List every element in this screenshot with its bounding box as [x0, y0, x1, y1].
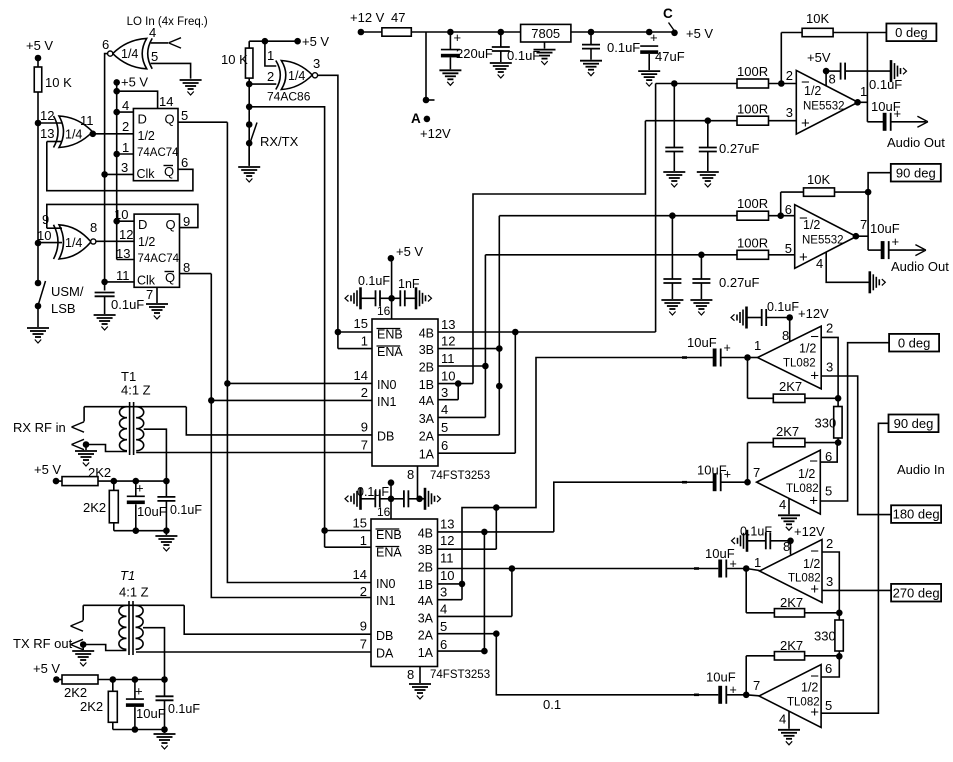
- svg-text:TL082: TL082: [786, 483, 819, 495]
- svg-text:4: 4: [779, 712, 786, 727]
- svg-text:0.1uF: 0.1uF: [740, 525, 772, 539]
- wire U7b pin4 ground: [788, 499, 790, 515]
- svg-text:+: +: [650, 30, 658, 45]
- ground (0.1uF output cap): [580, 60, 602, 62]
- svg-text:2K2: 2K2: [80, 699, 103, 714]
- flip-flop U3b 1/2 74AC74 (FF2): [134, 214, 179, 287]
- svg-text:3: 3: [786, 105, 793, 120]
- svg-text:5: 5: [440, 619, 447, 634]
- xor gate U2b 1/4 (inputs 9,10 output 8): [59, 225, 91, 259]
- svg-text:+: +: [454, 30, 462, 45]
- wire select rail IN0 (FF1 Q) down to mux2: [227, 122, 371, 582]
- xor gate U2a 1/4 74AC86 (inputs 12,13 output 11): [59, 116, 93, 148]
- resistor 2K7 (U8b feedback): [774, 652, 804, 660]
- wire FF1 pin14 VCC: [117, 91, 158, 108]
- connector TX RF out (shield): [71, 639, 84, 644]
- svg-text:47uF: 47uF: [655, 49, 685, 64]
- resistor 10K (U5b feedback): [780, 192, 782, 216]
- ground (0.1uF input cap): [490, 62, 512, 64]
- svg-text:11: 11: [80, 113, 94, 128]
- svg-text:2: 2: [361, 385, 368, 400]
- wire 7805 output rail: [571, 31, 675, 33]
- svg-text:+: +: [724, 468, 731, 482]
- wire mux1 ENA: [338, 348, 372, 350]
- svg-text:TX RF out: TX RF out: [13, 636, 73, 651]
- svg-text:2B: 2B: [418, 561, 433, 575]
- ground (U5b pin4 sideways): [868, 271, 871, 293]
- wire NE5532b pin6 input row: [499, 215, 794, 217]
- svg-text:7: 7: [860, 217, 867, 232]
- svg-text:0 deg: 0 deg: [895, 25, 928, 40]
- wire - left rail to XOR inputs and USM/LSB switch: [37, 123, 39, 283]
- svg-text:0.1uF: 0.1uF: [170, 503, 202, 517]
- svg-text:8: 8: [90, 220, 97, 235]
- svg-text:9: 9: [183, 214, 190, 229]
- wire clock rail from U2c output to FF clocks: [105, 54, 108, 291]
- capacitor 0.27uF (sampling, U5b pin5): [700, 255, 702, 279]
- ground (U7a supply sideways): [745, 307, 748, 329]
- wire mux1 2A pin5: [438, 434, 499, 436]
- svg-text:3: 3: [826, 360, 833, 375]
- flip-flop U3a 1/2 74AC74 (FF1): [133, 109, 178, 181]
- svg-text:+5V: +5V: [807, 50, 831, 65]
- wire mux2 pin16 VCC from decoupling row: [390, 483, 392, 519]
- wire RX bias bottom rail: [114, 530, 167, 532]
- svg-text:14: 14: [159, 94, 173, 109]
- svg-text:+: +: [136, 481, 144, 496]
- svg-text:+5 V: +5 V: [34, 462, 61, 477]
- svg-text:0.1uF: 0.1uF: [358, 274, 390, 288]
- svg-text:+5 V: +5 V: [686, 26, 713, 41]
- svg-text:7: 7: [360, 637, 367, 652]
- wire 90 deg down to U7d pin5: [821, 423, 888, 713]
- resistor 2K2 (RX bias series): [62, 477, 98, 486]
- node 90 deg box (audio in): [889, 415, 939, 433]
- svg-text:2: 2: [826, 536, 833, 551]
- svg-text:4: 4: [122, 98, 129, 113]
- wire U8b pin4 ground: [788, 712, 790, 729]
- svg-text:D: D: [138, 217, 147, 232]
- svg-text:TL082: TL082: [787, 697, 820, 709]
- svg-text:Q: Q: [164, 164, 174, 179]
- mux U6 74FST3253 (TX): [371, 519, 438, 667]
- svg-text:3: 3: [441, 385, 448, 400]
- ground (clock rail cap): [94, 314, 116, 316]
- wire mux1 IN0 from select rail: [227, 382, 372, 384]
- capacitor 0.1uF (mux2 decoupling): [361, 498, 375, 500]
- svg-text:NE5532: NE5532: [802, 235, 844, 247]
- ground (cap U5a pin2): [663, 171, 685, 173]
- svg-text:5: 5: [181, 108, 188, 123]
- wire U8a pin3 to 270 deg: [822, 589, 891, 591]
- wire FF2 Qbar pin8 to IN1 rail: [180, 273, 212, 275]
- wire mux2 2A row: [438, 633, 497, 635]
- wire mux2 2B row to TL082c via 10uF: [438, 568, 719, 570]
- svg-text:C: C: [663, 6, 673, 21]
- node C +5V output: [671, 30, 678, 37]
- svg-text:Audio Out: Audio Out: [891, 259, 949, 274]
- capacitor 10uF (TL082c output coupling): [718, 560, 722, 578]
- wire mux1 3B pin12: [438, 348, 499, 350]
- wire rail 3B/2A up to NE5532b pin6: [498, 216, 500, 435]
- svg-text:10K: 10K: [807, 172, 830, 187]
- wire FF1 pin4: [117, 111, 134, 113]
- regulator 7805: [521, 24, 571, 42]
- svg-text:6: 6: [825, 661, 832, 676]
- capacitor 0.1uF (U7a supply): [766, 317, 790, 319]
- wire mux2 ENB from enable rail: [325, 530, 371, 532]
- wire NE5532a pin3 input row: [645, 120, 796, 122]
- wire XOR U2b output 8 to FF2 pin12 D: [96, 240, 134, 242]
- svg-text:11: 11: [440, 551, 454, 566]
- ground (mux2 0.1uF sideways): [359, 488, 362, 510]
- wire mux1 pin8 GND to decoupling row: [417, 466, 419, 499]
- svg-text:15: 15: [354, 316, 368, 331]
- wire mux1 4B pin13 to NE5532a pin2 rail: [438, 331, 656, 333]
- ground (cap U5a pin3): [697, 171, 719, 173]
- wire 0 deg to U7b pin5: [820, 343, 889, 501]
- svg-text:74AC74: 74AC74: [138, 253, 180, 265]
- capacitor 10uF (RX bias): [135, 481, 137, 496]
- wire audio out Q arrow: [889, 249, 924, 251]
- svg-text:A: A: [411, 111, 421, 126]
- svg-text:1/4: 1/4: [121, 47, 138, 61]
- resistor 10K (RX/TX pullup): [248, 41, 250, 48]
- svg-text:0.1uF: 0.1uF: [357, 485, 389, 499]
- svg-text:0.1uF: 0.1uF: [111, 297, 144, 312]
- capacitor 0.1uF (7805 output): [590, 32, 592, 45]
- ground (U5a decoupling sideways): [890, 60, 893, 82]
- svg-text:8: 8: [829, 72, 836, 87]
- wire T1RX center tap to bias: [144, 429, 167, 481]
- svg-text:3A: 3A: [419, 412, 435, 426]
- svg-text:2K2: 2K2: [64, 685, 87, 700]
- svg-text:IN0: IN0: [377, 378, 397, 392]
- switch RX/TX: [251, 123, 258, 142]
- wire TL082b output staircase to mux2 4B: [554, 482, 714, 532]
- svg-text:Q: Q: [165, 270, 175, 285]
- wire U5a output to 10uF: [866, 33, 868, 122]
- svg-text:16: 16: [377, 304, 391, 318]
- svg-text:T1: T1: [120, 568, 135, 583]
- wire PSU rail: [411, 31, 520, 33]
- ground (U7b pin4): [778, 514, 800, 516]
- capacitor 10uF (audio out I): [867, 121, 884, 123]
- svg-text:1B: 1B: [418, 578, 433, 592]
- svg-text:0.1uF: 0.1uF: [607, 40, 640, 55]
- ground (220uF): [439, 69, 461, 71]
- svg-text:1: 1: [267, 48, 274, 63]
- resistor 100R (U5a non-inverting input): [737, 116, 769, 125]
- svg-text:1/4: 1/4: [288, 69, 305, 83]
- op-amp U5b 1/2 NE5532 (Q channel): [795, 205, 857, 269]
- svg-text:8: 8: [407, 467, 414, 482]
- svg-text:1: 1: [361, 334, 368, 349]
- svg-text:74FST3253: 74FST3253: [430, 470, 490, 482]
- ground (7805): [534, 49, 556, 51]
- wire U7a pin2 to feedback node: [821, 337, 838, 398]
- svg-text:8: 8: [782, 328, 789, 343]
- power +12V (U7a pin8): [789, 318, 791, 342]
- wire jog 1B-4A: [457, 384, 459, 400]
- wire mux1 1B pin10 to 4A tie: [438, 383, 473, 385]
- svg-text:7805: 7805: [531, 26, 560, 41]
- svg-text:2K2: 2K2: [88, 465, 111, 480]
- xor gate U2c 1/4 mirrored (output 6 left, inputs 4,5 right) LO buffer: [113, 38, 147, 68]
- svg-text:330: 330: [814, 629, 836, 644]
- node 0 deg box (audio in): [889, 334, 939, 352]
- wire FF2 pin7 GND: [156, 287, 158, 303]
- ground (mux2 decoupling sideways right): [420, 498, 425, 500]
- wire rail 1B/4A up to NE5532a pin3 (staircase): [473, 121, 645, 384]
- wire rail 2B/3A up to NE5532b pin5: [484, 255, 486, 418]
- svg-text:0.1uF: 0.1uF: [168, 702, 200, 716]
- ground (FF2 pin7): [146, 303, 168, 305]
- svg-text:IN1: IN1: [377, 395, 397, 409]
- wire U8b pin6 to divider node: [821, 656, 839, 677]
- ground (USM/LSB): [27, 327, 49, 329]
- wire XOR U2a output 11 to FF1 pin2 D: [93, 133, 134, 135]
- wire FF1 pin1: [117, 153, 134, 155]
- svg-text:3: 3: [313, 56, 320, 71]
- svg-text:Clk: Clk: [137, 274, 156, 288]
- ground (cap U5b pin5): [690, 299, 712, 301]
- wire audio out I arrow: [891, 121, 926, 123]
- svg-text:2B: 2B: [419, 361, 434, 375]
- svg-text:10: 10: [114, 207, 128, 222]
- svg-text:5: 5: [441, 420, 448, 435]
- svg-text:6: 6: [441, 438, 448, 453]
- svg-text:4: 4: [779, 497, 786, 512]
- ground (RX/TX): [238, 166, 260, 168]
- wire mux1 3A pin4: [438, 416, 485, 418]
- capacitor 220uF: [449, 32, 451, 50]
- svg-text:10: 10: [37, 228, 51, 243]
- svg-text:+12V: +12V: [798, 306, 829, 321]
- svg-text:USM/: USM/: [51, 284, 84, 299]
- svg-text:2: 2: [122, 119, 129, 134]
- switch USM/LSB: [35, 280, 42, 287]
- wire T1RX secondary top to mux1 DB: [186, 407, 372, 435]
- wire +5V rail to FF preset/clear pins: [116, 82, 118, 259]
- svg-text:100R: 100R: [737, 236, 768, 251]
- ground (cap U5b pin6): [661, 299, 683, 301]
- svg-text:270 deg: 270 deg: [893, 585, 940, 600]
- wire jog mux2 1B-4A: [461, 584, 463, 600]
- svg-text:1/2: 1/2: [138, 235, 155, 249]
- op-amp U8a 1/2 TL082 (TX 180deg buffer): [760, 540, 823, 603]
- ground (mux2 pin8): [409, 683, 431, 685]
- svg-text:+12 V: +12 V: [350, 10, 385, 25]
- wire mux2 ENA: [325, 546, 371, 548]
- capacitor 0.1uF (U5a supply decoupling): [826, 70, 841, 72]
- svg-text:2K7: 2K7: [779, 379, 802, 394]
- svg-text:7: 7: [146, 287, 153, 302]
- wire mux2 3B row: [438, 548, 497, 550]
- svg-text:6: 6: [102, 37, 109, 52]
- svg-text:+5 V: +5 V: [33, 661, 60, 676]
- capacitor 0.1uF (U8a supply): [770, 540, 790, 542]
- wire mux2 pin8 GND: [419, 667, 421, 684]
- resistor 330 (U7a/U7b divider): [834, 407, 842, 439]
- svg-text:100R: 100R: [737, 196, 768, 211]
- ground (LO input): [180, 79, 202, 81]
- resistor 2K2 (RX bias shunt): [113, 481, 115, 490]
- power +12V (U8a pin8): [790, 541, 792, 555]
- svg-text:5: 5: [785, 241, 792, 256]
- connector RX RF in (shield): [72, 439, 85, 444]
- svg-text:1/2: 1/2: [798, 467, 815, 481]
- svg-text:+5 V: +5 V: [302, 34, 329, 49]
- svg-text:Q: Q: [165, 112, 175, 127]
- wire select rail IN1 (FF2 Qbar) down to mux2: [211, 274, 371, 598]
- svg-text:4B: 4B: [418, 527, 433, 541]
- svg-text:3: 3: [440, 585, 447, 600]
- capacitor 0.1uF (TX bias): [164, 680, 166, 697]
- wire U5b pin4 to ground: [826, 253, 869, 283]
- wire mux2 DA from T1 TX secondary: [136, 651, 371, 653]
- wire mux1 IN1 from select rail: [211, 399, 372, 401]
- svg-text:4A: 4A: [419, 394, 435, 408]
- wire TX bias bottom rail: [113, 729, 165, 731]
- svg-text:NE5532: NE5532: [803, 101, 845, 113]
- ground (RX bias): [165, 531, 167, 535]
- svg-text:1A: 1A: [418, 646, 434, 660]
- svg-text:9: 9: [360, 619, 367, 634]
- svg-text:2: 2: [360, 584, 367, 599]
- svg-text:1: 1: [860, 84, 867, 99]
- capacitor 0.1uF (RX bias): [165, 481, 167, 497]
- svg-text:Audio In: Audio In: [897, 462, 945, 477]
- resistor 100R (U5b non-inverting input): [737, 250, 769, 259]
- svg-text:RX/TX: RX/TX: [260, 134, 299, 149]
- svg-text:RX RF in: RX RF in: [13, 420, 66, 435]
- wire mux2 4B-1A tie: [483, 532, 485, 651]
- wire mux2 DB from T1 TX secondary: [184, 605, 371, 634]
- svg-text:+: +: [892, 234, 900, 249]
- svg-text:ENA: ENA: [377, 345, 403, 359]
- ground (47uF): [638, 70, 660, 72]
- mux U4 74FST3253 (RX): [372, 319, 438, 466]
- svg-text:1/2: 1/2: [138, 129, 155, 143]
- node 180 deg box (audio in): [891, 505, 941, 523]
- svg-text:3B: 3B: [418, 543, 433, 557]
- resistor 2K7 (U7a feedback): [747, 358, 749, 399]
- capacitor 0.27uF (sampling, U5b pin6): [671, 216, 673, 279]
- op-amp U5a 1/2 NE5532 (I channel): [796, 70, 858, 134]
- svg-text:2: 2: [786, 68, 793, 83]
- capacitor 0.1uF (7805 input): [500, 32, 502, 47]
- svg-text:6: 6: [181, 155, 188, 170]
- svg-text:ENB: ENB: [377, 328, 403, 342]
- ground (mux1 1nF sideways): [415, 287, 418, 309]
- svg-text:1/2: 1/2: [803, 218, 820, 232]
- svg-text:7: 7: [753, 465, 760, 480]
- svg-text:90 deg: 90 deg: [894, 416, 934, 431]
- svg-text:2: 2: [267, 69, 274, 84]
- capacitor 1nF (mux1 decoupling): [392, 297, 401, 299]
- svg-text:100R: 100R: [737, 102, 768, 117]
- svg-text:1/2: 1/2: [803, 557, 820, 571]
- svg-text:7: 7: [753, 678, 760, 693]
- svg-text:10 K: 10 K: [221, 52, 248, 67]
- svg-text:5: 5: [825, 698, 832, 713]
- wire FF1 Q pin5 to IN0 rail: [178, 121, 227, 123]
- svg-text:10uF: 10uF: [136, 706, 166, 721]
- svg-text:13: 13: [440, 517, 454, 532]
- svg-text:4B: 4B: [419, 327, 434, 341]
- svg-text:8: 8: [183, 260, 190, 275]
- op-amp U7a 1/2 TL082 (TX 0deg buffer): [758, 326, 822, 389]
- wire U8a pin2 to feedback node: [822, 552, 839, 613]
- connector TX RF out (hot): [82, 605, 84, 620]
- svg-text:10uF: 10uF: [137, 504, 167, 519]
- wire mux1 4A pin3: [438, 399, 458, 401]
- svg-text:10uF: 10uF: [687, 335, 717, 350]
- svg-text:1: 1: [754, 555, 761, 570]
- svg-text:Clk: Clk: [137, 167, 156, 181]
- svg-text:4: 4: [440, 602, 447, 617]
- wire mux2 2B tie down to 3A: [511, 569, 513, 617]
- svg-text:+: +: [801, 115, 810, 132]
- svg-text:13: 13: [116, 246, 130, 261]
- wire U7b pin6 to divider node: [820, 443, 837, 463]
- svg-text:3: 3: [121, 160, 128, 175]
- svg-text:12: 12: [119, 227, 133, 242]
- ground (U8a supply sideways): [746, 530, 749, 552]
- wire U7a pin3 to 180deg: [821, 376, 891, 515]
- svg-text:+5 V: +5 V: [121, 75, 148, 90]
- svg-text:2: 2: [826, 321, 833, 336]
- svg-text:74FST3253: 74FST3253: [430, 669, 490, 681]
- svg-text:+5 V: +5 V: [26, 38, 53, 53]
- svg-text:0.1: 0.1: [543, 697, 561, 712]
- svg-text:3: 3: [826, 574, 833, 589]
- svg-text:12: 12: [440, 533, 454, 548]
- wire mux1 2B pin11: [438, 365, 485, 367]
- svg-text:0.1uF: 0.1uF: [869, 77, 902, 92]
- wire mux1 pin16 VCC: [391, 259, 393, 319]
- svg-text:12: 12: [441, 334, 455, 349]
- resistor 47: [382, 28, 411, 36]
- svg-text:2K7: 2K7: [776, 424, 799, 439]
- svg-text:47: 47: [391, 10, 405, 25]
- svg-text:TL082: TL082: [783, 358, 816, 370]
- svg-text:11: 11: [441, 351, 455, 366]
- wire T1TX center tap to bias: [143, 628, 165, 680]
- resistor 2K2 (TX bias shunt): [112, 680, 114, 692]
- capacitor 10uF (audio out Q): [868, 249, 882, 251]
- connector RX RF in (hot): [83, 407, 85, 422]
- svg-text:7: 7: [361, 438, 368, 453]
- svg-text:10: 10: [441, 369, 455, 384]
- svg-text:+: +: [135, 684, 143, 699]
- svg-text:1/2: 1/2: [801, 681, 818, 695]
- resistor 10K (U5a feedback): [780, 33, 782, 84]
- svg-text:1: 1: [122, 140, 129, 155]
- wire mux2 4A row: [438, 599, 463, 601]
- svg-text:IN1: IN1: [376, 594, 396, 608]
- svg-text:220uF: 220uF: [456, 46, 493, 61]
- wire RX/TX node to mux2 enable rail: [249, 107, 324, 547]
- resistor 10K (top-left pullup): [34, 67, 42, 92]
- capacitor 10uF (TX bias): [134, 680, 136, 700]
- ground (U8b pin4): [778, 729, 800, 731]
- svg-text:4: 4: [441, 402, 448, 417]
- resistor 2K7 (U7b feedback): [773, 438, 805, 446]
- node 90 deg box (Q out tap): [868, 173, 891, 192]
- wire TL082a output staircase to mux2 1B/4A: [462, 358, 714, 584]
